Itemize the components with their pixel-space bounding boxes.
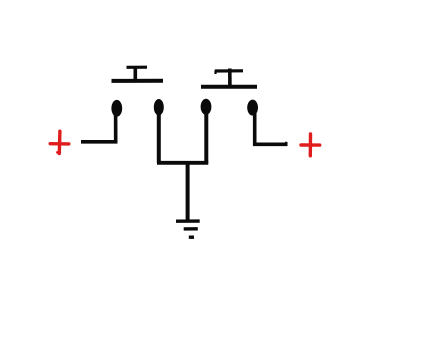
transistor Q2 left terminal dot [201, 99, 212, 115]
transistor Q2 right terminal dot [247, 100, 258, 116]
transistor Q2 gate (top T-bar symbol, right device) [201, 69, 257, 87]
wire: common node down to ground [186, 163, 190, 221]
terminal + (right input, red) [301, 134, 320, 156]
wire: Q2 right terminal down and right to + terminal [255, 113, 288, 144]
transistor Q1 right terminal dot [154, 99, 164, 115]
ground symbol [176, 221, 200, 237]
terminal + (left input, red) [50, 131, 69, 153]
transistor Q1 left terminal dot [111, 100, 122, 117]
wire: Q1 left terminal down and left to + terminal [81, 113, 116, 142]
wire: common junction horizontal bus [157, 161, 208, 165]
transistor Q1 gate (top T-bar symbol, left device) [112, 67, 164, 81]
wire: Q1 right terminal down to common junction [157, 112, 161, 163]
wire: Q2 left terminal down to common junction [204, 112, 208, 163]
